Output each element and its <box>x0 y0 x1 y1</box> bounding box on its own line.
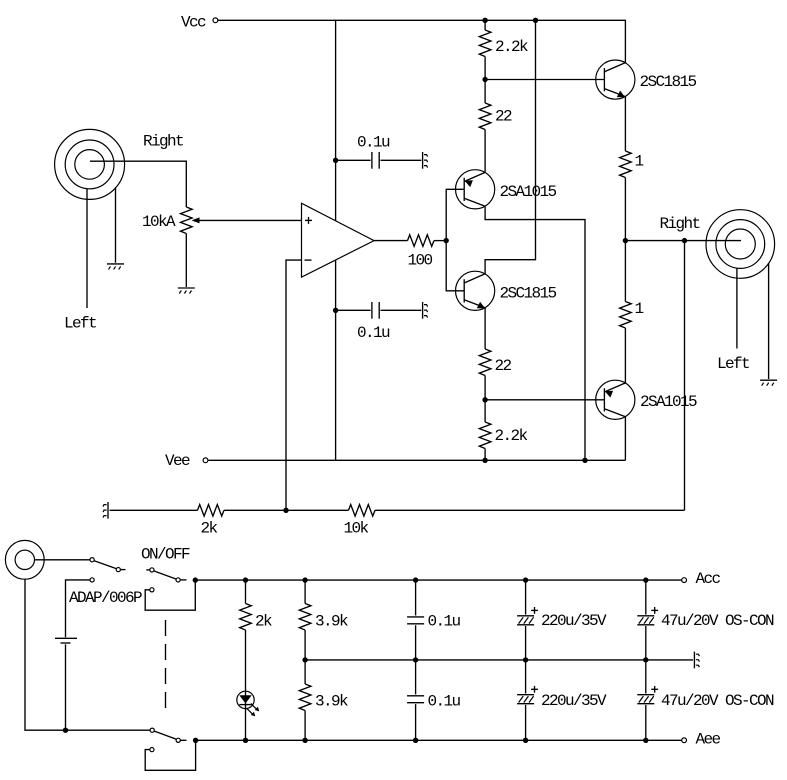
label output Left <box>717 355 749 373</box>
transistor Q1 2SC1815 top-right <box>596 60 697 99</box>
svg-text:Right: Right <box>143 132 183 150</box>
node divider bottom <box>302 738 307 743</box>
svg-text:Vee: Vee <box>165 452 190 470</box>
node 0.1u bottom <box>413 738 418 743</box>
switch S1b lever <box>154 731 187 740</box>
node V+ cap junction <box>333 158 338 163</box>
resistor 10k feedback <box>344 504 375 537</box>
resistor 100 <box>374 235 446 269</box>
node 47u mid <box>643 657 648 662</box>
svg-text:47u/20V OS-CON: 47u/20V OS-CON <box>661 612 774 630</box>
node 0.1u top <box>413 577 418 582</box>
svg-text:22: 22 <box>495 108 512 126</box>
wire Vee rail <box>208 459 626 461</box>
svg-text:0.1u: 0.1u <box>428 612 461 630</box>
switch jack contact pole <box>90 558 94 562</box>
wire Vcc rail <box>218 20 626 62</box>
label input Right <box>143 132 183 150</box>
svg-text:1: 1 <box>635 153 644 171</box>
terminal Vcc <box>181 13 218 31</box>
node 47u bottom <box>643 738 648 743</box>
terminal Aee <box>682 730 721 748</box>
svg-text:10kA: 10kA <box>142 213 176 231</box>
wire input left <box>86 189 88 308</box>
resistor 2k LED chain <box>240 580 272 691</box>
wire Aee rail <box>196 739 682 741</box>
node 47u top <box>643 577 648 582</box>
resistor 2.2k lower <box>479 400 527 461</box>
switch S1b NO contact <box>150 748 154 752</box>
wire opamp V- supply <box>335 260 337 460</box>
svg-text:0.1u: 0.1u <box>357 324 390 342</box>
capacitor 0.1u lower <box>336 302 422 342</box>
transistor Q4 2SA1015 bottom-right <box>596 380 697 419</box>
node 220u bottom <box>523 738 528 743</box>
wire NPN driver collector to Vcc <box>485 20 535 274</box>
wire feedback row <box>110 509 685 511</box>
node 220u mid <box>523 657 528 662</box>
capacitor 220u/35V lower <box>517 660 607 740</box>
transistor Q3 2SC1815 mid-lower <box>456 271 557 310</box>
resistor 2k feedback <box>198 504 224 537</box>
resistor 1 lower <box>620 300 644 383</box>
svg-text:Left: Left <box>64 315 96 333</box>
node Vee-2.2k junction <box>482 458 487 463</box>
node 220u top <box>523 577 528 582</box>
svg-text:220u/35V: 220u/35V <box>541 612 607 630</box>
wire pot bottom <box>185 234 187 288</box>
resistor 3.9k lower <box>299 684 348 740</box>
svg-text:2k: 2k <box>255 613 272 631</box>
wire battery negative <box>65 644 67 730</box>
ground below pot <box>178 288 195 294</box>
wire input shield <box>115 187 117 262</box>
svg-text:Left: Left <box>717 355 749 373</box>
node Vcc-collector junction <box>533 18 538 23</box>
switch S1b pole <box>150 728 154 732</box>
wire T1 emitter to 1ohm <box>624 97 626 151</box>
node divider mid <box>302 657 307 662</box>
wire T1 base <box>485 79 604 81</box>
capacitor 0.1u supply lower <box>407 660 460 740</box>
ground sideways at upper 0.1u <box>423 152 428 169</box>
wire output down <box>624 241 626 302</box>
switch battery contact <box>90 578 94 582</box>
wire Q4 collector to Vee <box>624 417 626 461</box>
svg-text:10k: 10k <box>344 520 369 538</box>
node Aee rail start <box>193 738 198 743</box>
node V- cap junction <box>333 308 338 313</box>
wire Acc rail <box>195 579 681 581</box>
potentiometer 10kA <box>142 207 302 233</box>
terminal Vee <box>165 452 208 470</box>
op-amp U1 <box>302 203 375 277</box>
ground output shield <box>760 380 777 386</box>
svg-text:3.9k: 3.9k <box>315 613 348 631</box>
svg-text:2SC1815: 2SC1815 <box>500 285 557 303</box>
svg-text:0.1u: 0.1u <box>428 692 461 710</box>
wire opamp V+ supply <box>335 20 337 220</box>
label input Left <box>64 315 96 333</box>
svg-text:0.1u: 0.1u <box>357 134 390 152</box>
switch jack contact throw <box>116 568 120 572</box>
wire Q3 emitter to 22 <box>484 308 486 349</box>
svg-text:Right: Right <box>660 215 700 233</box>
wire T4 base <box>485 399 604 401</box>
node Vcc-2.2k junction <box>482 18 487 23</box>
svg-text:100: 100 <box>408 251 433 269</box>
label ON/OFF <box>141 546 190 564</box>
resistor 2.2k upper <box>479 20 528 79</box>
label output Right <box>660 215 700 233</box>
svg-text:47u/20V OS-CON: 47u/20V OS-CON <box>661 692 774 710</box>
svg-text:2SA1015: 2SA1015 <box>500 183 557 201</box>
svg-text:22: 22 <box>495 357 512 375</box>
node divider top <box>302 577 307 582</box>
svg-text:2.2k: 2.2k <box>495 427 528 445</box>
resistor 22 lower <box>479 349 511 400</box>
DC jack <box>5 540 44 579</box>
input RCA jack <box>55 129 125 199</box>
wire input right signal <box>90 161 186 207</box>
capacitor 220u/35V upper <box>517 580 607 660</box>
capacitor 0.1u upper <box>336 134 422 169</box>
node 2k chain top <box>243 577 248 582</box>
resistor 3.9k upper <box>299 580 348 684</box>
node output <box>623 238 628 243</box>
wire battery positive <box>66 580 90 637</box>
node 100ohm output <box>444 238 449 243</box>
terminal Acc <box>682 570 721 588</box>
svg-text:2SA1015: 2SA1015 <box>640 393 697 411</box>
node feedback junction <box>283 508 288 513</box>
node output feedback tap <box>682 238 687 243</box>
node LED chain bottom <box>243 738 248 743</box>
wire switch mechanical link dashed <box>165 620 167 710</box>
transistor Q2 2SA1015 mid-upper <box>456 170 557 209</box>
wire Q2 collector to Vee <box>485 206 585 460</box>
node T1 base junction <box>482 77 487 82</box>
capacitor 0.1u supply upper <box>407 580 460 660</box>
wire output shield <box>768 263 770 379</box>
svg-text:Vcc: Vcc <box>181 13 206 31</box>
wire S1b NO loop <box>145 740 195 770</box>
svg-text:Acc: Acc <box>696 570 721 588</box>
switch jack contact lever <box>94 561 126 570</box>
svg-text:2SC1815: 2SC1815 <box>640 73 697 91</box>
node Vee-collector junction <box>582 458 587 463</box>
ground sideways at feedback left <box>103 502 108 519</box>
ground input shield <box>107 264 124 270</box>
svg-text:1: 1 <box>635 300 644 318</box>
switch S1a throw <box>176 578 180 582</box>
wire DC jack tip <box>35 559 90 561</box>
wire feedback vertical <box>684 241 686 511</box>
node 0.1u mid <box>413 657 418 662</box>
capacitor 47u/20V OS-CON upper <box>637 580 774 660</box>
output RCA jack <box>706 210 775 279</box>
wire S1a NO loop <box>145 580 195 610</box>
svg-text:Aee: Aee <box>696 730 721 748</box>
capacitor 47u/20V OS-CON lower <box>637 660 774 740</box>
resistor 1 upper <box>620 151 644 241</box>
svg-text:2.2k: 2.2k <box>495 38 528 56</box>
wire output left <box>736 268 738 348</box>
svg-text:2k: 2k <box>201 520 218 538</box>
svg-text:ADAP/006P: ADAP/006P <box>69 589 142 607</box>
switch S1a NO contact <box>150 588 154 592</box>
wire DC jack sleeve <box>25 579 150 730</box>
wire inverting input <box>286 260 302 510</box>
battery BT1 <box>55 638 77 643</box>
label ADAP/006P <box>69 589 142 607</box>
wire mid rail <box>305 659 693 661</box>
ground sideways mid rail <box>694 652 699 669</box>
svg-text:3.9k: 3.9k <box>315 692 348 710</box>
node battery-sleeve junction <box>63 728 68 733</box>
node T4 base junction <box>482 397 487 402</box>
svg-text:220u/35V: 220u/35V <box>541 692 607 710</box>
node Acc rail start <box>193 577 198 582</box>
resistor 22 upper <box>479 80 512 173</box>
wire output row <box>625 240 741 242</box>
switch S1a pole <box>146 568 154 572</box>
switch S1a lever <box>154 571 187 580</box>
LED D1 <box>237 691 259 716</box>
wire LED cathode <box>245 691 247 740</box>
wire bases junction <box>446 189 464 290</box>
ground sideways at lower 0.1u <box>423 302 428 319</box>
switch S1b throw <box>176 738 180 742</box>
svg-text:ON/OFF: ON/OFF <box>141 546 190 564</box>
